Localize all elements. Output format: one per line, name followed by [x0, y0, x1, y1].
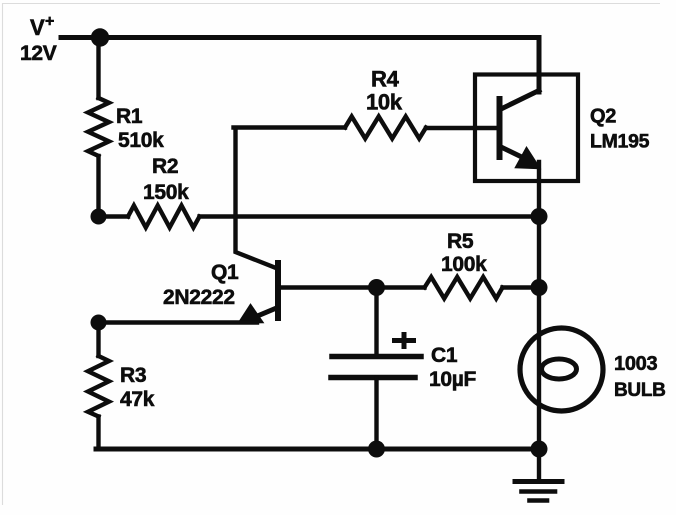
bulb outer circle	[520, 328, 603, 411]
transistor Q2 package box	[475, 75, 578, 182]
wire: ground stub	[537, 449, 541, 481]
resistor R1	[88, 98, 109, 156]
node R5 right	[531, 279, 548, 296]
transistor Q1 emitter diagonal	[248, 308, 277, 320]
wire: C1 top lead	[374, 286, 378, 355]
transistor Q2 collector diagonal	[502, 91, 539, 109]
node right rail mid	[531, 208, 548, 225]
wire: R2 to right rail node	[200, 214, 540, 218]
resistor R3	[88, 356, 109, 417]
scan border top	[3, 3, 660, 5]
svg-text:C1: C1	[431, 344, 458, 367]
wire: R4 to Q2 base	[426, 126, 497, 130]
svg-text:LM195: LM195	[590, 131, 650, 153]
node ground	[531, 441, 548, 458]
svg-text:1003: 1003	[614, 353, 657, 375]
resistor R2	[128, 206, 200, 228]
svg-text:R3: R3	[120, 364, 146, 387]
wire: emitter node down to R3	[96, 323, 100, 357]
capacitor C1 top plate	[332, 354, 421, 360]
node C1 bottom	[368, 441, 385, 458]
wire: R4 left wire	[234, 125, 346, 129]
transistor Q2 emitter arrow	[516, 148, 541, 169]
wire: C1 bottom lead	[374, 378, 378, 450]
wire: R5 to right rail	[503, 285, 541, 289]
resistor R5	[425, 277, 503, 299]
wire: V+ node down to R1	[96, 37, 100, 98]
svg-text:2N2222: 2N2222	[163, 286, 235, 309]
transistor Q1 emitter arrow	[239, 305, 264, 324]
svg-text:V: V	[30, 15, 45, 40]
svg-text:+: +	[45, 13, 54, 30]
scan border left	[2, 3, 4, 505]
wire: C1 node to R5	[377, 285, 425, 289]
ground bar 2	[522, 489, 556, 494]
svg-text:R4: R4	[371, 67, 400, 92]
svg-text:150k: 150k	[143, 181, 189, 204]
svg-text:Q1: Q1	[211, 261, 239, 284]
svg-text:BULB: BULB	[614, 380, 666, 401]
capacitor C1 bottom plate	[331, 375, 415, 381]
svg-text:47k: 47k	[120, 388, 155, 411]
bulb filament loop	[542, 359, 577, 379]
wire: bottom rail	[96, 447, 541, 452]
capacitor plus sign	[392, 332, 416, 349]
wire: R3 bottom to bottom rail	[96, 417, 100, 450]
svg-text:12V: 12V	[20, 42, 57, 65]
wire: R1 bottom to mid node	[96, 156, 100, 218]
svg-text:R5: R5	[447, 230, 474, 253]
node Q1 emitter	[91, 315, 107, 331]
transistor Q2 emitter diagonal	[502, 148, 530, 162]
svg-text:10µF: 10µF	[429, 368, 477, 391]
wire: Q1 collector to C1 node	[280, 285, 377, 289]
resistor R4	[345, 117, 426, 139]
wire: right rail Q2 emitter to ground	[537, 162, 541, 452]
transistor Q1 base bar	[275, 263, 281, 318]
svg-text:Q2: Q2	[590, 106, 616, 128]
ground bar 3	[530, 498, 548, 503]
svg-text:10k: 10k	[366, 90, 403, 115]
wire: R4 corner down to Q1 base diagonal	[236, 128, 277, 268]
svg-text:100k: 100k	[441, 253, 487, 276]
node V+	[91, 28, 109, 46]
svg-text:510k: 510k	[118, 129, 164, 152]
wire: top rail V+ to Q2 collector corner	[61, 38, 539, 93]
ground bar 1	[515, 479, 562, 484]
svg-text:R2: R2	[152, 155, 178, 178]
node C1 top	[368, 279, 385, 296]
node R1/R2	[91, 209, 107, 225]
wire: mid node to R2	[99, 214, 129, 218]
transistor Q2 base bar	[497, 99, 503, 157]
svg-text:R1: R1	[116, 105, 143, 128]
wire: Q1 emitter horizontal	[99, 320, 258, 324]
